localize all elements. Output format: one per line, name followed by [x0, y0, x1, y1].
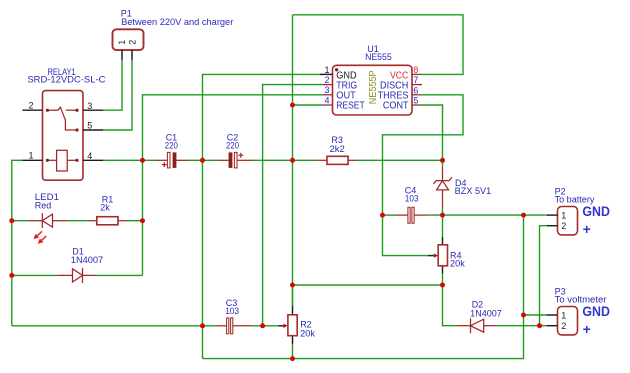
svg-text:20k: 20k: [300, 328, 315, 338]
wire relay pin1 left then down left rail: [12, 160, 23, 325]
junction bottom rail R2: [290, 356, 295, 361]
svg-text:CONT: CONT: [383, 100, 409, 112]
wire zener node down through R4 to D2 row: [442, 160, 444, 165]
svg-text:8: 8: [413, 65, 418, 75]
svg-text:4: 4: [87, 151, 92, 161]
junction LED row left: [9, 218, 14, 223]
relay RELAY1: [22, 91, 103, 181]
svg-text:4: 4: [324, 95, 329, 105]
wire C3 row left: [12, 325, 216, 327]
wire R2 top from link: [292, 285, 294, 306]
connector P3: [547, 307, 578, 335]
wire R4 bottom to R2 top link: [293, 284, 443, 286]
svg-text:220: 220: [165, 140, 178, 150]
capacitor C4: [396, 207, 427, 223]
svg-text:220: 220: [226, 140, 239, 150]
resistor R3: [318, 156, 357, 164]
svg-text:SRD-12VDC-SL-C: SRD-12VDC-SL-C: [27, 74, 106, 84]
svg-text:1: 1: [561, 210, 566, 220]
diode D1: [58, 268, 97, 283]
svg-text:103: 103: [225, 306, 239, 316]
svg-text:Red: Red: [35, 201, 52, 211]
junction C2 row at main vertical: [290, 158, 295, 163]
junction D2 row at P2 pin2 vertical: [537, 323, 542, 328]
junction C3 row at TRIG vertical: [260, 323, 265, 328]
wire D1 row left: [12, 274, 58, 276]
wire C3 to R2 wiper: [252, 325, 279, 327]
svg-text:103: 103: [405, 194, 419, 204]
wire C4 row left segment: [383, 214, 397, 216]
svg-text:BZX 5V1: BZX 5V1: [455, 186, 492, 196]
junction R3 D4 CONT: [440, 158, 445, 163]
svg-text:2: 2: [324, 75, 329, 85]
wire C2 to R3: [252, 159, 317, 161]
wire P3 pin1: [524, 314, 548, 316]
junction P3 pin1: [521, 313, 526, 318]
junction link row left: [290, 283, 295, 288]
wire LED row left: [12, 220, 28, 222]
wire GND pin1 left then down: [203, 74, 321, 358]
svg-text:+: +: [583, 221, 591, 237]
zener diode D4: [433, 166, 452, 207]
diode D2: [458, 318, 497, 333]
svg-text:NE555P: NE555P: [368, 70, 379, 104]
junction D1 row left: [9, 273, 14, 278]
wire top VCC rail: [293, 15, 464, 75]
wire D1 to vertical: [97, 274, 143, 276]
svg-text:1: 1: [117, 40, 127, 45]
connector P1: [113, 29, 144, 60]
svg-text:GND: GND: [582, 303, 610, 319]
svg-text:20k: 20k: [450, 259, 465, 269]
svg-text:1N4007: 1N4007: [71, 255, 103, 265]
wire P1 pin2 down to relay pin5: [103, 60, 132, 130]
svg-text:2: 2: [28, 100, 33, 110]
wire long vertical net x=292.5: [292, 15, 294, 306]
junction C4 row left: [380, 213, 385, 218]
svg-text:5: 5: [413, 96, 418, 106]
svg-text:GND: GND: [582, 203, 610, 219]
wire THRES pin6 right down left down to wiper: [383, 95, 464, 256]
wire C4 node to R4 top: [442, 215, 444, 237]
junction C1 row at OUT vertical: [140, 158, 145, 163]
wire CONT pin5 right then down: [421, 105, 443, 160]
svg-text:1N4007: 1N4007: [470, 308, 502, 318]
capacitor C3: [216, 318, 252, 334]
wire RESET pin4 to vertical: [293, 104, 323, 106]
junction C4 row right: [440, 213, 445, 218]
svg-text:NE555: NE555: [365, 52, 392, 62]
svg-text:2: 2: [561, 221, 566, 231]
svg-text:2k: 2k: [100, 203, 110, 213]
wire GND rail P2 P3 bottom: [203, 215, 524, 359]
junction C3 row at GND vertical: [200, 323, 205, 328]
capacitor C1: [156, 152, 188, 168]
junction P2 row GND rail: [521, 213, 526, 218]
wire R3 to D4 node: [357, 159, 443, 161]
svg-text:7: 7: [413, 75, 418, 85]
junction C1 row at GND vertical: [200, 158, 205, 163]
wire relay pin4 to C1: [103, 159, 156, 161]
wire TRIG pin2 left then down: [263, 85, 323, 326]
potentiometer R2: [278, 306, 297, 344]
svg-text:2: 2: [561, 321, 566, 331]
potentiometer R4: [428, 237, 448, 274]
svg-text:2k2: 2k2: [330, 144, 345, 154]
wire D2 to P3 pin2: [497, 325, 547, 327]
svg-text:3: 3: [324, 85, 329, 95]
svg-text:RESET: RESET: [336, 100, 365, 112]
svg-text:2: 2: [127, 40, 137, 45]
wire R4 bottom down then right to D2: [443, 274, 459, 326]
svg-text:Between 220V and charger: Between 220V and charger: [121, 17, 233, 27]
svg-text:1: 1: [324, 65, 329, 75]
svg-text:+: +: [583, 321, 591, 337]
connector P2: [547, 207, 578, 235]
wire C1 to C2: [188, 159, 218, 161]
wire P1 pin1 down to relay pin3: [103, 60, 122, 110]
svg-text:3: 3: [87, 101, 92, 111]
wire P2 pin2 left then down to D2 row: [540, 226, 548, 326]
junction RESET: [290, 103, 295, 108]
junction LED row right: [140, 218, 145, 223]
wire OUT pin3 left then down: [143, 95, 323, 276]
svg-text:1: 1: [561, 310, 566, 320]
resistor R1: [89, 217, 129, 225]
wire R1 to vertical: [128, 220, 143, 222]
capacitor C2: [219, 152, 253, 168]
svg-text:5: 5: [87, 121, 92, 131]
svg-text:1: 1: [28, 150, 33, 160]
wire LED to R1: [67, 220, 88, 222]
wire R2 bottom to bottom rail: [292, 344, 294, 359]
op-amp U1 NE555 box: [320, 65, 422, 115]
junction link row right: [440, 283, 445, 288]
svg-text:6: 6: [413, 85, 418, 95]
LED LED1: [28, 213, 67, 243]
wire C4 to P2 pin1: [427, 214, 548, 216]
wire D4 to C4 node: [442, 207, 444, 216]
